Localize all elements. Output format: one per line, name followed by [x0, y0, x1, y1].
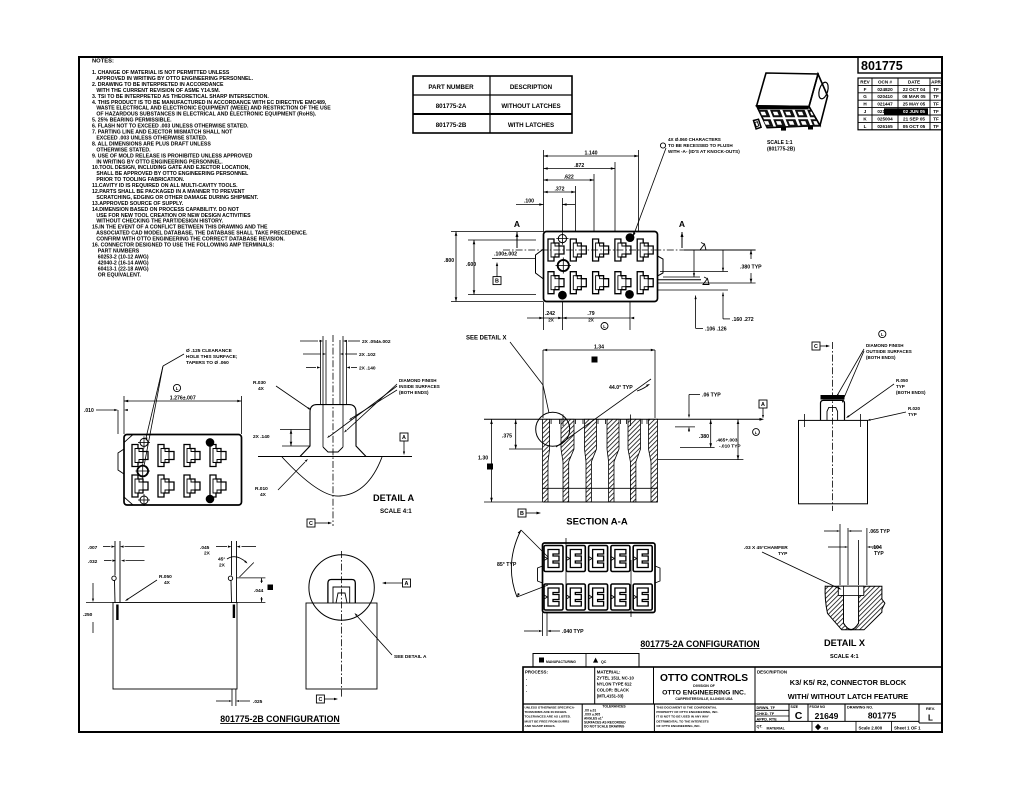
svg-text:TIONS/DIMS ARE IN INCHES.: TIONS/DIMS ARE IN INCHES. — [525, 710, 568, 714]
svg-text:2X: 2X — [588, 318, 595, 323]
svg-text:OF OTTO ENGINEERING, INC.: OF OTTO ENGINEERING, INC. — [656, 724, 700, 728]
svg-text:801775: 801775 — [868, 711, 897, 721]
svg-text:4X Ø.060 CHARACTERS: 4X Ø.060 CHARACTERS — [668, 137, 721, 142]
svg-text:TYP: TYP — [874, 551, 884, 557]
svg-text:K3/ K5/ R2, CONNECTOR BLOCK: K3/ K5/ R2, CONNECTOR BLOCK — [790, 678, 907, 687]
svg-text:801775-2A CONFIGURATION: 801775-2A CONFIGURATION — [640, 639, 759, 649]
svg-text:TO BE RECESSED TO FLUSH: TO BE RECESSED TO FLUSH — [668, 143, 733, 148]
svg-text:MUST BE FREE FROM BURRS: MUST BE FREE FROM BURRS — [525, 719, 570, 723]
svg-text:DESCRIPTION: DESCRIPTION — [510, 84, 553, 91]
svg-text:.380: .380 — [699, 434, 709, 440]
svg-text:(MTL4151-33): (MTL4151-33) — [597, 694, 624, 699]
svg-text:85° TYP: 85° TYP — [497, 562, 517, 568]
svg-text:UNLESS OTHERWISE SPECIFICA-: UNLESS OTHERWISE SPECIFICA- — [525, 706, 575, 710]
svg-text:C: C — [318, 697, 322, 703]
svg-text:REV: REV — [860, 79, 870, 84]
svg-text:025004: 025004 — [877, 116, 893, 121]
svg-text:801775-2B: 801775-2B — [436, 122, 467, 129]
svg-text:SEE DETAIL A: SEE DETAIL A — [394, 654, 427, 660]
svg-text:R.030: R.030 — [253, 380, 266, 386]
svg-text:.03 X 45°CHAMFER: .03 X 45°CHAMFER — [744, 545, 788, 551]
svg-text:.: . — [526, 688, 527, 693]
svg-text:OUTSIDE SURFACES: OUTSIDE SURFACES — [866, 349, 912, 354]
svg-text:TAPERS TO Ø .060: TAPERS TO Ø .060 — [186, 360, 229, 366]
svg-text:.: . — [526, 676, 527, 681]
svg-text:DIAMOND FINISH: DIAMOND FINISH — [399, 378, 437, 383]
svg-text:TOLERANCES ARE AS LISTED.: TOLERANCES ARE AS LISTED. — [525, 715, 571, 719]
svg-text:21 SEP 05: 21 SEP 05 — [903, 116, 925, 121]
svg-text:.010: .010 — [84, 408, 94, 414]
svg-text:C: C — [795, 710, 803, 722]
svg-text:.032: .032 — [88, 559, 98, 565]
svg-text:1.34: 1.34 — [594, 344, 604, 350]
svg-text:THIS DOCUMENT IS THE CONFIDENT: THIS DOCUMENT IS THE CONFIDENTIAL — [656, 706, 717, 710]
svg-text:1.140: 1.140 — [585, 150, 598, 156]
svg-text:R.050: R.050 — [159, 574, 172, 580]
svg-text:801775-2A: 801775-2A — [436, 103, 467, 110]
svg-text:F: F — [864, 87, 867, 92]
svg-text:2X .140: 2X .140 — [253, 434, 270, 440]
svg-text:R.020: R.020 — [908, 406, 921, 411]
svg-text:ZYTEL 151L NC-10: ZYTEL 151L NC-10 — [597, 676, 635, 681]
svg-text:TF: TF — [933, 116, 939, 121]
svg-text:TF: TF — [933, 124, 939, 129]
svg-text:DATE: DATE — [908, 79, 920, 84]
svg-text:DIVISION OF: DIVISION OF — [693, 684, 716, 688]
svg-text:APR: APR — [931, 79, 941, 84]
svg-text:026165: 026165 — [877, 124, 893, 129]
svg-text:.100: .100 — [524, 199, 534, 205]
svg-text:MANUFACTURING: MANUFACTURING — [546, 660, 576, 664]
svg-text:801775-2B CONFIGURATION: 801775-2B CONFIGURATION — [220, 714, 340, 724]
svg-text:2X: 2X — [219, 563, 226, 569]
svg-text:TF: TF — [933, 94, 939, 99]
svg-text:C: C — [309, 521, 313, 527]
svg-text:DETAIL X: DETAIL X — [824, 638, 866, 648]
svg-text:C: C — [814, 344, 818, 350]
svg-text:NOTES:: NOTES: — [92, 59, 114, 65]
svg-text:021447: 021447 — [877, 102, 893, 107]
svg-text:OTTO ENGINEERING INC.: OTTO ENGINEERING INC. — [662, 690, 746, 697]
svg-text:4X: 4X — [260, 492, 267, 498]
svg-text:.380 TYP: .380 TYP — [740, 265, 762, 271]
svg-text:.372: .372 — [554, 186, 564, 192]
svg-text:1.30: 1.30 — [478, 456, 488, 462]
svg-text:.250: .250 — [83, 612, 93, 618]
svg-text:A: A — [402, 435, 406, 441]
svg-text:OCN #: OCN # — [878, 79, 892, 84]
svg-text:.800: .800 — [444, 258, 454, 264]
svg-text:2X: 2X — [548, 318, 555, 323]
svg-text:PROCESS:: PROCESS: — [525, 670, 548, 675]
svg-text:.065 TYP: .065 TYP — [869, 529, 891, 535]
svg-text:IT IS NOT TO BE USED IN ANY WA: IT IS NOT TO BE USED IN ANY WAY — [656, 715, 709, 719]
svg-text:PROPERTY OF OTTO ENGINEERING,: PROPERTY OF OTTO ENGINEERING, INC. — [656, 710, 718, 714]
svg-text:45°: 45° — [218, 557, 225, 563]
svg-text:02 JUN 05: 02 JUN 05 — [903, 109, 925, 114]
svg-text:B: B — [520, 511, 524, 517]
svg-text:.044: .044 — [254, 588, 264, 594]
svg-text:R.010: R.010 — [255, 486, 268, 492]
svg-text:L: L — [176, 386, 179, 391]
svg-text:L: L — [603, 324, 606, 329]
svg-text:4X: 4X — [258, 386, 265, 392]
svg-text:44.0° TYP: 44.0° TYP — [609, 385, 633, 391]
svg-text:A: A — [405, 581, 409, 587]
svg-text:R.050: R.050 — [896, 378, 909, 383]
svg-text:TF: TF — [933, 87, 939, 92]
svg-text:AND SHARP EDGES.: AND SHARP EDGES. — [525, 724, 556, 728]
svg-text:TYP: TYP — [896, 384, 905, 389]
svg-text:TYP: TYP — [908, 412, 917, 417]
svg-text:.160 .272: .160 .272 — [732, 317, 754, 323]
svg-text:.79: .79 — [587, 311, 594, 317]
svg-text:Scale 2.000: Scale 2.000 — [859, 725, 883, 730]
svg-text:(BOTH ENDS): (BOTH ENDS) — [896, 390, 926, 395]
svg-text:.106 .126: .106 .126 — [705, 327, 727, 333]
svg-text:DESCRIPTION: DESCRIPTION — [757, 670, 787, 675]
svg-text:WITH -A- (ID'S AT KNOCK-OUTS): WITH -A- (ID'S AT KNOCK-OUTS) — [668, 149, 740, 154]
svg-text:.242: .242 — [545, 311, 555, 317]
svg-text:.600: .600 — [466, 262, 476, 268]
svg-text:-.010 TYP: -.010 TYP — [719, 444, 741, 450]
svg-text:(BOTH ENDS): (BOTH ENDS) — [399, 390, 429, 395]
svg-text:.007: .007 — [88, 545, 98, 551]
svg-text:SCALE 1:1: SCALE 1:1 — [767, 140, 793, 146]
svg-text:PART NUMBER: PART NUMBER — [428, 84, 474, 91]
svg-text:A: A — [514, 219, 520, 229]
svg-text:024820: 024820 — [877, 87, 893, 92]
svg-text:TOLERANCES: TOLERANCES — [602, 705, 626, 709]
svg-text:.040 TYP: .040 TYP — [562, 629, 584, 635]
svg-text:WITH LATCHES: WITH LATCHES — [508, 122, 554, 129]
svg-text:.100±.002: .100±.002 — [494, 252, 517, 258]
svg-text:25 MAY 05: 25 MAY 05 — [903, 102, 926, 107]
svg-text:L: L — [864, 124, 867, 129]
svg-text:4X: 4X — [164, 580, 171, 586]
svg-text:DETAIL A: DETAIL A — [373, 493, 415, 503]
svg-text:SECTION A-A: SECTION A-A — [566, 517, 628, 528]
svg-text:.375: .375 — [502, 434, 512, 440]
svg-text:WITH/ WITHOUT LATCH FEATURE: WITH/ WITHOUT LATCH FEATURE — [788, 692, 908, 701]
svg-text:021998: 021998 — [877, 109, 893, 114]
svg-text:A: A — [679, 219, 685, 229]
svg-text:SCALE 4:1: SCALE 4:1 — [830, 654, 859, 660]
svg-text:APPD. RTE: APPD. RTE — [757, 717, 778, 721]
svg-text:.622: .622 — [564, 174, 574, 180]
svg-text:1.276±.007: 1.276±.007 — [170, 395, 196, 401]
svg-text:QC: QC — [601, 660, 607, 664]
svg-text:.: . — [526, 682, 527, 687]
svg-text:J: J — [864, 109, 867, 114]
svg-text:INSIDE SURFACES: INSIDE SURFACES — [399, 384, 440, 389]
svg-text:020410: 020410 — [877, 94, 893, 99]
svg-text:TF: TF — [933, 109, 939, 114]
svg-text:2X: 2X — [204, 551, 211, 557]
svg-text:.872: .872 — [574, 163, 584, 169]
svg-text:DETRIMENTAL TO THE INTERESTS: DETRIMENTAL TO THE INTERESTS — [656, 719, 708, 723]
svg-text:DRAWING NO.: DRAWING NO. — [847, 706, 873, 710]
svg-text:MATERIAL: MATERIAL — [767, 726, 786, 730]
svg-text:MATERIAL:: MATERIAL: — [597, 670, 621, 675]
svg-text:.025: .025 — [253, 699, 263, 705]
svg-text:L: L — [928, 714, 933, 723]
svg-text:TYP: TYP — [778, 551, 788, 557]
svg-text:SCALE 4:1: SCALE 4:1 — [380, 508, 412, 515]
svg-text:22 OCT 04: 22 OCT 04 — [903, 87, 926, 92]
svg-text:CHKD. TF: CHKD. TF — [757, 712, 775, 716]
svg-text:COLOR: BLACK: COLOR: BLACK — [597, 688, 629, 693]
svg-text:DIAMOND FINISH: DIAMOND FINISH — [866, 343, 904, 348]
svg-text:.045: .045 — [200, 545, 210, 551]
svg-text:HOLE THIS SURFACE;: HOLE THIS SURFACE; — [186, 354, 238, 360]
svg-text:SEE DETAIL X: SEE DETAIL X — [466, 336, 506, 342]
svg-text:.06 TYP: .06 TYP — [702, 393, 721, 399]
svg-text:NYLON TYPE 612: NYLON TYPE 612 — [597, 682, 633, 687]
svg-text:DO NOT SCALE DRAWING: DO NOT SCALE DRAWING — [584, 725, 625, 729]
svg-text:SIZE: SIZE — [791, 705, 799, 709]
svg-text:B: B — [495, 279, 499, 285]
svg-text:801775: 801775 — [861, 59, 903, 73]
svg-text:REV.: REV. — [926, 706, 935, 711]
svg-text:-03: -03 — [823, 726, 828, 730]
svg-text:OTTO CONTROLS: OTTO CONTROLS — [660, 673, 748, 684]
svg-text:Ø .125 CLEARANCE: Ø .125 CLEARANCE — [186, 348, 233, 354]
svg-text:(BOTH ENDS): (BOTH ENDS) — [866, 355, 896, 360]
svg-text:21649: 21649 — [815, 711, 839, 721]
svg-text:(801775-2B): (801775-2B) — [767, 147, 795, 153]
svg-text:.465+.003: .465+.003 — [716, 438, 738, 444]
svg-text:WITHOUT LATCHES: WITHOUT LATCHES — [501, 103, 560, 110]
svg-text:QT.: QT. — [757, 725, 763, 729]
svg-text:08 MAR 05: 08 MAR 05 — [902, 94, 926, 99]
svg-text:TF: TF — [933, 102, 939, 107]
svg-text:CARPENTERSVILLE, ILLINOIS USA: CARPENTERSVILLE, ILLINOIS USA — [675, 697, 733, 701]
svg-text:2X .140: 2X .140 — [359, 366, 376, 372]
svg-text:2X .102: 2X .102 — [359, 352, 376, 358]
svg-text:2X .054±.002: 2X .054±.002 — [362, 339, 391, 345]
svg-text:Sheet 1 OF 1: Sheet 1 OF 1 — [894, 725, 921, 730]
svg-text:A: A — [761, 402, 765, 408]
svg-text:DRWN. TF: DRWN. TF — [757, 706, 776, 710]
svg-text:05 OCT 05: 05 OCT 05 — [903, 124, 926, 129]
svg-text:G: G — [863, 94, 867, 99]
svg-text:L: L — [881, 332, 884, 337]
svg-text:FSCM NO: FSCM NO — [810, 705, 826, 709]
